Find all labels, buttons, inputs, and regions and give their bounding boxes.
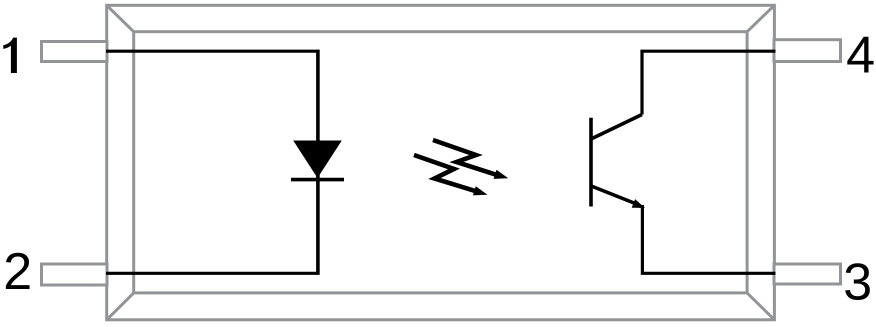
light arrow 1 (upper) <box>433 140 508 179</box>
pin 1 label <box>3 38 17 73</box>
LED D1 triangle (anode) <box>293 141 342 179</box>
wire emitter to pin 3 <box>642 205 775 273</box>
wire collector to pin 4 <box>642 51 776 114</box>
package corner bevel top-right <box>747 5 774 31</box>
optocoupler package inner outline <box>134 32 747 293</box>
phototransistor Q1 base bar <box>589 118 593 207</box>
pin 4 lead <box>774 40 841 62</box>
wire LED cathode to pin 2 <box>106 272 318 275</box>
package corner bevel bottom-right <box>747 293 774 320</box>
package corner bevel bottom-left <box>107 293 134 320</box>
svg-text:4: 4 <box>846 27 875 85</box>
pin 3 lead <box>774 264 841 284</box>
pin 1 lead <box>42 42 108 62</box>
LED D1 cathode bar <box>291 178 344 182</box>
phototransistor Q1 emitter diagonal <box>590 186 634 204</box>
optocoupler package outer outline <box>107 5 775 320</box>
svg-text:2: 2 <box>3 243 32 301</box>
package corner bevel top-left <box>107 5 134 31</box>
phototransistor Q1 collector diagonal <box>590 115 642 140</box>
light arrow 2 (lower) <box>414 155 488 195</box>
phototransistor Q1 emitter arrowhead <box>632 199 645 208</box>
wire LED vertical stem <box>316 50 320 275</box>
wire pin 1 to LED anode <box>106 50 318 53</box>
svg-text:3: 3 <box>843 254 872 312</box>
pin 2 lead <box>42 264 108 285</box>
